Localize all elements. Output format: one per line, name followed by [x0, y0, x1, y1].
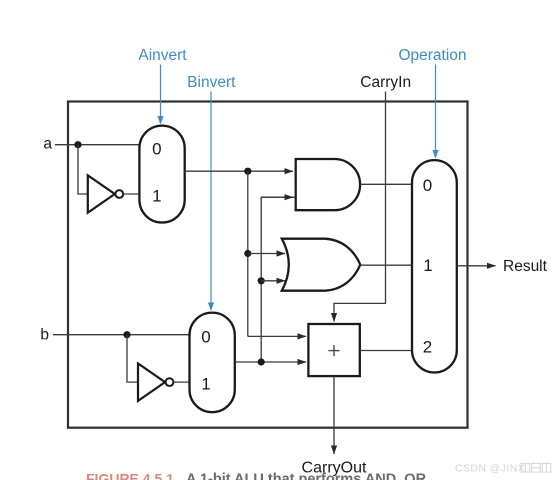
wire OR output	[360, 264, 412, 266]
svg-text:1: 1	[152, 187, 161, 206]
wire b input	[53, 334, 190, 336]
svg-text:CarryIn: CarryIn	[360, 74, 411, 91]
AND gate	[296, 159, 360, 210]
svg-text:Result: Result	[503, 258, 548, 275]
wire b-mux output	[235, 361, 306, 363]
wire a-mux output to AND	[185, 170, 293, 172]
mux Operation (3:1 result mux)	[412, 160, 457, 372]
svg-text:CSDN @JINX: CSDN @JINX	[455, 463, 525, 475]
wire b-bus to OR input	[261, 280, 285, 282]
wire inverter-b to mux	[173, 381, 189, 383]
enclosing box	[68, 102, 468, 428]
node b-mux output junction	[258, 358, 265, 365]
wire b to inverter	[127, 335, 138, 382]
Ainvert control wire	[160, 65, 162, 124]
node a junction	[74, 141, 81, 148]
svg-text:0: 0	[201, 327, 210, 346]
svg-text:2: 2	[423, 338, 432, 357]
wire adder output	[360, 350, 412, 352]
label + (adder)	[328, 345, 339, 356]
wire AND output	[360, 183, 412, 185]
svg-text:0: 0	[152, 139, 161, 158]
wire a input	[55, 144, 139, 146]
node a-bus junction	[244, 168, 251, 175]
CarryIn wire	[334, 92, 386, 322]
wire b-bus vertical	[261, 197, 295, 362]
OR gate	[282, 239, 361, 291]
wire inverter-a to mux	[123, 193, 139, 195]
svg-text:Ainvert: Ainvert	[138, 47, 187, 64]
mux Ainvert (2:1)	[139, 126, 184, 223]
wire a-bus to OR input	[248, 253, 285, 255]
wire a to inverter	[78, 145, 88, 194]
watermark	[455, 463, 551, 475]
svg-text:A 1-bit ALU that performs AND,: A 1-bit ALU that performs AND, OR	[186, 472, 427, 480]
inverter (a)	[88, 175, 123, 212]
node a-bus to OR junction	[244, 250, 251, 257]
node b junction	[123, 331, 130, 338]
adder U+	[308, 324, 359, 376]
svg-text:a: a	[43, 136, 52, 153]
Binvert control wire	[210, 92, 212, 311]
wire a-bus vertical	[247, 171, 249, 336]
mux Binvert (2:1)	[190, 313, 235, 413]
wire CarryOut	[333, 376, 335, 454]
svg-text:b: b	[40, 327, 49, 344]
wire Result output	[457, 265, 496, 267]
svg-text:FIGURE 4.5.1: FIGURE 4.5.1	[86, 471, 174, 480]
svg-text:1: 1	[423, 256, 432, 275]
svg-text:Binvert: Binvert	[187, 74, 236, 91]
svg-text:0: 0	[423, 176, 432, 195]
Operation control wire	[435, 65, 437, 158]
wire b-bus to AND input arrowhead	[261, 196, 293, 198]
inverter (b)	[138, 364, 173, 401]
node b-bus to OR junction	[258, 277, 265, 284]
wire a-bus to adder input	[248, 335, 306, 337]
svg-text:Operation: Operation	[398, 47, 466, 64]
svg-text:1: 1	[201, 375, 210, 394]
